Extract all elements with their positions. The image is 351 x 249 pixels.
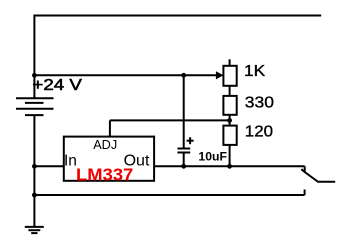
svg-text:10uF: 10uF	[198, 152, 227, 164]
wire R1 top stub	[229, 59, 231, 66]
battery B1	[16, 98, 54, 115]
svg-text:330: 330	[245, 95, 274, 112]
node rail/capacitor junction	[181, 73, 186, 78]
svg-text:120: 120	[245, 124, 273, 141]
wire ADJ horizontal	[110, 119, 230, 121]
wire left vertical upper (top rail to battery)	[33, 15, 35, 98]
node capacitor/output junction	[181, 164, 186, 169]
node bottom return junction	[32, 193, 37, 198]
node divider/output junction	[227, 164, 232, 169]
node +24V junction	[32, 73, 37, 78]
node ADJ/divider junction	[227, 118, 232, 123]
wire ADJ pin vertical	[109, 120, 111, 136]
svg-text:1K: 1K	[244, 63, 266, 80]
resistor R3 120	[223, 126, 236, 145]
svg-text:In: In	[64, 153, 77, 170]
wire R2-R3 lead	[229, 115, 231, 126]
wire bottom return	[34, 194, 304, 196]
ground	[25, 227, 44, 233]
svg-text:+24 V: +24 V	[32, 77, 82, 94]
wire R3 bottom lead	[229, 145, 231, 166]
op-amp U1 LM337 box	[64, 137, 154, 181]
wire R1-R2 lead	[229, 86, 231, 96]
node In junction	[32, 164, 37, 169]
wire capacitor bottom lead	[183, 153, 185, 167]
resistor R2 330	[223, 96, 236, 115]
wire capacitor top lead	[183, 75, 185, 147]
capacitor plus sign	[187, 137, 194, 144]
wire bottom terminal hook	[304, 190, 306, 196]
wire In (battery to box)	[34, 165, 63, 167]
svg-text:LM337: LM337	[76, 165, 133, 185]
arrowhead into R1	[216, 71, 224, 79]
wire +24V rail	[34, 74, 216, 76]
wire left vertical lower (battery to ground)	[33, 115, 35, 226]
svg-text:ADJ: ADJ	[93, 137, 117, 152]
wire top rail	[34, 15, 321, 17]
switch SW1 blade	[301, 169, 335, 182]
resistor R1 1K	[223, 66, 236, 86]
capacitor C1	[178, 149, 191, 153]
wire Out (box to switch)	[154, 165, 305, 167]
switch SW1 top terminal stub	[304, 166, 306, 172]
